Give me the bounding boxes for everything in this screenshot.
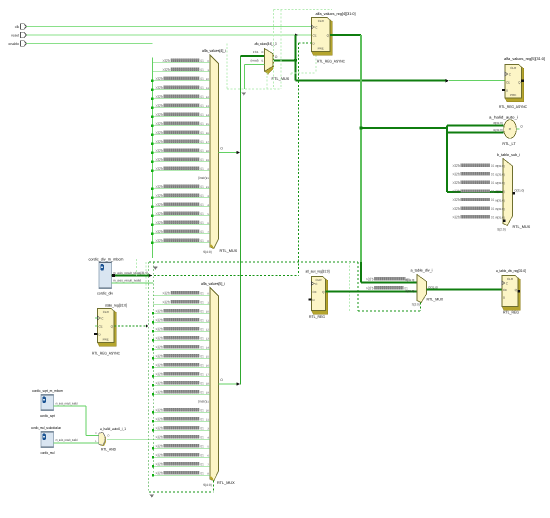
- svg-text:01: 01: [200, 373, 203, 377]
- svg-text:cordic_sqrt: cordic_sqrt: [40, 414, 56, 418]
- svg-text:>32'b: >32'b: [156, 112, 164, 117]
- svg-text:01: 01: [200, 230, 203, 234]
- net connector arrow top: [153, 267, 158, 270]
- svg-text:>32'b: >32'b: [156, 363, 164, 368]
- wire thin continuation to right register: [449, 80, 505, 82]
- svg-text:m_axis_result_tvalid: m_axis_result_tvalid: [56, 401, 78, 405]
- svg-text:m_axis_result_tvalid: m_axis_result_tvalid: [113, 279, 141, 283]
- boundary dashed dark vertical x149: [148, 262, 150, 492]
- svg-text:>32'b: >32'b: [453, 197, 461, 202]
- constant 32-bit input row 5 of upper mux: [152, 107, 210, 109]
- svg-text:CE: CE: [99, 324, 103, 328]
- svg-text:>32'b: >32'b: [163, 300, 171, 305]
- constant 32-bit input row 15 of upper mux: [152, 197, 210, 199]
- input port clk: [15, 24, 27, 29]
- wire enable net: [27, 43, 153, 45]
- svg-text:I1[31:0]: I1[31:0]: [493, 128, 503, 132]
- svg-text:>32'b: >32'b: [156, 444, 164, 449]
- svg-text:>32'b: >32'b: [156, 453, 164, 458]
- svg-text:>32'b: >32'b: [156, 139, 164, 144]
- svg-text:01: 01: [200, 292, 203, 296]
- svg-text:alfa_values_reg[5][31:0]: alfa_values_reg[5][31:0]: [504, 57, 545, 61]
- svg-text:cordic_mul: cordic_mul: [41, 451, 55, 455]
- constant 32-bit input row 19 of lower mux: [153, 465, 210, 467]
- constant 32-bit input row 20 of upper mux: [152, 242, 210, 244]
- svg-text:01: 01: [200, 203, 203, 207]
- svg-text:>32'b: >32'b: [156, 211, 164, 216]
- constant 32-bit input row 16 of lower mux: [107, 438, 210, 440]
- svg-text:CLR: CLR: [318, 19, 325, 23]
- constant 32-bit input row 6 of lower mux: [153, 348, 210, 350]
- comparator output O: [516, 128, 519, 130]
- stub D input black: [94, 333, 97, 335]
- boundary dashed dark vertical x153: [152, 262, 154, 473]
- constant 32-bit input row 11 of lower mux: [153, 393, 210, 395]
- svg-text:state_reg[31:0]: state_reg[31:0]: [105, 304, 127, 308]
- svg-text:CLR: CLR: [507, 277, 514, 281]
- svg-text:>32'b: >32'b: [453, 171, 461, 176]
- wire small mux I1 input: [245, 63, 265, 65]
- svg-text:>32'b: >32'b: [156, 318, 164, 323]
- svg-text:>32'b: >32'b: [156, 130, 164, 135]
- stub Q a_table_div_reg: [518, 290, 520, 292]
- svg-text:CLR: CLR: [103, 310, 110, 314]
- svg-text:1'b1: 1'b1: [253, 50, 259, 54]
- svg-text:>32'b: >32'b: [156, 462, 164, 467]
- dashed select rise to a_table mux S: [420, 303, 422, 312]
- dashed select vertical x358: [357, 262, 359, 311]
- svg-text:>32'b: >32'b: [156, 381, 164, 386]
- svg-text:CE: CE: [503, 288, 507, 292]
- svg-text:PRE: PRE: [103, 338, 109, 342]
- svg-text:01: 01: [200, 221, 203, 225]
- svg-text:01: 01: [200, 346, 203, 350]
- constant 32-bit input row 9 of lower mux: [153, 375, 210, 377]
- constant 32-bit input row 14 of upper mux: [152, 188, 210, 190]
- svg-text:I0[31:0]: I0[31:0]: [405, 278, 415, 282]
- svg-text:enable: enable: [8, 42, 19, 46]
- svg-text:RTL_MUX: RTL_MUX: [427, 297, 444, 301]
- svg-text:S[4:0]: S[4:0]: [203, 483, 211, 487]
- wire comparator I1: [447, 132, 504, 134]
- register alfa_values_reg[5][31:0] body RTL_REG_ASYNC: [505, 65, 524, 102]
- svg-text:RTL_REG_ASYNC: RTL_REG_ASYNC: [317, 60, 345, 64]
- svg-text:01: 01: [491, 198, 494, 202]
- svg-text:>32'b: >32'b: [156, 103, 164, 108]
- net connector arrow near feedback bus: [242, 92, 247, 95]
- svg-text:01: 01: [200, 194, 203, 198]
- svg-text:01: 01: [200, 122, 203, 126]
- svg-text:PRE: PRE: [510, 93, 516, 97]
- stub a0aux D input black: [309, 299, 312, 301]
- dashed light at a_table boundary: [349, 262, 351, 311]
- svg-text:b_table_sub_i: b_table_sub_i: [497, 153, 520, 157]
- constant 32-bit input row 4 of lower mux: [153, 330, 210, 332]
- svg-text:>32'b: >32'b: [156, 85, 164, 90]
- svg-text:S[4:0]: S[4:0]: [203, 250, 211, 254]
- register alfa_values_reg[4][31:0] body RTL_REG_ASYNC: [312, 18, 333, 56]
- svg-text:cordic_div: cordic_div: [97, 292, 113, 296]
- svg-text:>32'b: >32'b: [156, 229, 164, 234]
- gate RTL_AND body: [100, 433, 107, 446]
- svg-text:reset: reset: [11, 33, 19, 37]
- svg-text:>32'b: >32'b: [156, 426, 164, 431]
- constant 32-bit input row 16 of upper mux: [152, 206, 210, 208]
- input port enable: [8, 41, 26, 46]
- boundary dashed light vertical x146: [145, 262, 147, 290]
- junction on vertical bus: [360, 127, 363, 130]
- svg-text:01: 01: [491, 207, 494, 211]
- svg-text:RTL_REG_ASYNC: RTL_REG_ASYNC: [499, 105, 527, 109]
- constant 32-bit input row 20 of lower mux: [153, 474, 210, 476]
- module cordic_div body: [99, 262, 112, 289]
- svg-text:m_axis_result_tdata[31:0]: m_axis_result_tdata[31:0]: [113, 271, 148, 275]
- svg-text:alfa_values[5]_i: alfa_values[5]_i: [201, 281, 225, 286]
- svg-text:cordic_sqrt_m_mbcm: cordic_sqrt_m_mbcm: [32, 389, 63, 393]
- wire vertical bus from Q: [360, 35, 362, 262]
- constant 32-bit input row 17 of lower mux: [153, 447, 210, 449]
- svg-text:01: 01: [200, 59, 203, 63]
- svg-text:01: 01: [200, 77, 203, 81]
- constant 32-bit input row 13 of lower mux: [153, 411, 210, 413]
- boundary dashed light near PRE horizontal: [291, 72, 316, 74]
- junction dot small mux output: [294, 59, 297, 62]
- svg-text:01: 01: [491, 164, 494, 168]
- svg-text:>32'b: >32'b: [156, 354, 164, 359]
- svg-text:01: 01: [200, 140, 203, 144]
- wire feedback bus to small mux I0: [241, 55, 265, 57]
- mux alfa_values[4]_i RTL_MUX body: [210, 55, 219, 249]
- constant 32-bit input row 10 of upper mux: [152, 152, 210, 154]
- svg-text:>32'b: >32'b: [156, 417, 164, 422]
- svg-text:>32'b: >32'b: [156, 336, 164, 341]
- wire vertical at 447: [446, 126, 448, 193]
- svg-text:01: 01: [200, 472, 203, 476]
- svg-text:01: 01: [200, 463, 203, 467]
- svg-text:01: 01: [200, 328, 203, 332]
- svg-text:a_table_div_i: a_table_div_i: [411, 269, 433, 273]
- svg-text:>32'b: >32'b: [156, 309, 164, 314]
- wire dashed tdata to D of alfa_values_reg[4]: [299, 42, 312, 44]
- svg-text:01: 01: [200, 239, 203, 243]
- svg-text:PRE: PRE: [318, 47, 324, 51]
- boundary dashed light near PRE vertical: [315, 55, 317, 73]
- stub CE input: [95, 325, 98, 327]
- svg-text:01: 01: [200, 409, 203, 413]
- svg-text:>32'b: >32'b: [156, 166, 164, 171]
- constant 32-bit input row 18 of upper mux: [152, 224, 210, 226]
- dashed select bottom y492: [149, 491, 214, 493]
- wire a0_aux Q to a_table mux I1: [326, 291, 418, 293]
- svg-text:I1[31:0]: I1[31:0]: [405, 289, 415, 293]
- svg-text:RTL_MUX: RTL_MUX: [217, 481, 235, 485]
- svg-text:<: <: [509, 127, 512, 132]
- svg-text:01: 01: [491, 172, 494, 176]
- svg-text:>32'b: >32'b: [156, 148, 164, 153]
- svg-text:01: 01: [200, 113, 203, 117]
- wire a_table mux output: [427, 289, 503, 291]
- constant 32-bit input row 2 of upper mux: [152, 80, 210, 82]
- mux alfa_values[5]_i RTL_MUX body: [210, 288, 219, 481]
- svg-text:>32'b: >32'b: [156, 390, 164, 395]
- svg-text:01: 01: [200, 95, 203, 99]
- svg-text:01: 01: [200, 149, 203, 153]
- svg-text:RTL_AND: RTL_AND: [101, 447, 116, 451]
- svg-text:>32'b: >32'b: [156, 121, 164, 126]
- svg-text:cordic_mul_scaledvalue: cordic_mul_scaledvalue: [31, 426, 61, 430]
- wire b_table_sub I3 input: [447, 191, 503, 193]
- svg-text:alfa_values_reg[4][31:0]: alfa_values_reg[4][31:0]: [316, 12, 356, 16]
- svg-text:>32'b: >32'b: [453, 163, 461, 168]
- svg-text:I5[31:0]: I5[31:0]: [495, 207, 505, 211]
- svg-text:01: 01: [200, 418, 203, 422]
- constant 32-bit input row 11 of upper mux: [152, 161, 210, 163]
- svg-text:>32'b: >32'b: [156, 327, 164, 332]
- constant 32-bit input row 2 of lower mux: [153, 312, 210, 314]
- module cordic_sqrt body: [41, 395, 54, 411]
- register state_reg[31:0] body RTL_REG_ASYNC: [98, 309, 117, 347]
- svg-text:>32'b: >32'b: [156, 220, 164, 225]
- dashed select horizontal y262: [149, 261, 358, 263]
- svg-text:I1[31:0]: I1[31:0]: [495, 173, 505, 177]
- svg-text:a0_aux_reg[31:0]: a0_aux_reg[31:0]: [306, 269, 330, 273]
- svg-text:>32'b: >32'b: [156, 184, 164, 189]
- wire enable vertical distribution: [151, 58, 153, 259]
- arrow on reset net at boundary: [295, 33, 298, 36]
- constant 32-bit input row 1 of upper mux: [152, 71, 210, 73]
- svg-text:alfa_values[4]_i: alfa_values[4]_i: [202, 48, 226, 53]
- svg-text:>32'b: >32'b: [366, 276, 374, 281]
- svg-text:01: 01: [200, 68, 203, 72]
- svg-text:01: 01: [200, 364, 203, 368]
- register a0_aux_reg[31:0] body RTL_REG: [312, 277, 328, 315]
- constant 32-bit input row 7 of lower mux: [153, 357, 210, 359]
- constant 32-bit input row 12 of upper mux: [152, 170, 210, 172]
- svg-text:m_axis_result_tvalid: m_axis_result_tvalid: [56, 438, 78, 442]
- constant 32-bit input row 6 of upper mux: [152, 116, 210, 118]
- constant 32-bit input row 17 of upper mux: [152, 215, 210, 217]
- svg-text:>32'b: >32'b: [156, 76, 164, 81]
- svg-text:>32'b: >32'b: [156, 408, 164, 413]
- boundary dashed light left: [226, 44, 228, 89]
- mux b_table_sub_i body RTL_MUX: [503, 159, 513, 226]
- svg-text:01: 01: [200, 185, 203, 189]
- svg-text:>32'b: >32'b: [163, 291, 171, 296]
- svg-text:01: 01: [491, 215, 494, 219]
- dashed select vertical to lower mux S: [213, 481, 215, 493]
- wire clk net: [27, 26, 312, 28]
- svg-text:>32'b: >32'b: [366, 285, 374, 290]
- wire bus to right register CE: [296, 80, 447, 82]
- constant 32-bit input row 3 of upper mux: [152, 89, 210, 91]
- module cordic_mul body: [41, 432, 54, 448]
- constant 32-bit input row 10 of lower mux: [153, 384, 210, 386]
- svg-text:>32'b: >32'b: [453, 180, 461, 185]
- svg-text:CE: CE: [313, 290, 317, 294]
- comparator RTL_LT body: [504, 120, 517, 139]
- wire small mux select dashed: [266, 73, 268, 89]
- svg-text:a_halid_auto_i: a_halid_auto_i: [489, 116, 518, 120]
- svg-text:>32'b: >32'b: [156, 471, 164, 476]
- svg-text:I4[31:0]: I4[31:0]: [495, 198, 505, 202]
- svg-text:I0[31:0]: I0[31:0]: [493, 121, 503, 125]
- svg-text:01: 01: [200, 427, 203, 431]
- constant 32-bit input row 9 of upper mux: [152, 143, 210, 145]
- svg-text:O: O: [220, 378, 223, 382]
- svg-text:01: 01: [200, 86, 203, 90]
- svg-text:01: 01: [200, 445, 203, 449]
- svg-text:CLR: CLR: [510, 66, 517, 70]
- svg-text:a_halid_auto0_i_1: a_halid_auto0_i_1: [100, 427, 126, 431]
- svg-text:I2[31:0]: I2[31:0]: [495, 181, 505, 185]
- svg-text:01: 01: [200, 158, 203, 162]
- svg-text:>32'b: >32'b: [156, 202, 164, 207]
- boundary dashed light vertical A: [273, 10, 275, 89]
- constant 32-bit input row 3 of lower mux: [153, 321, 210, 323]
- svg-text:01: 01: [200, 382, 203, 386]
- svg-text:I0[31:0]: I0[31:0]: [495, 164, 505, 168]
- boundary dashed light vertical B: [280, 10, 282, 89]
- svg-text:CE: CE: [506, 80, 510, 84]
- svg-text:cordic_div_m_mbcm: cordic_div_m_mbcm: [89, 257, 124, 261]
- svg-text:I3[31:0]: I3[31:0]: [495, 190, 505, 194]
- svg-text:>32'b: >32'b: [156, 345, 164, 350]
- svg-text:01: 01: [200, 212, 203, 216]
- svg-text:O[31:0]: O[31:0]: [514, 188, 524, 192]
- svg-text:>32'b: >32'b: [156, 94, 164, 99]
- svg-text:>32'b: >32'b: [156, 193, 164, 198]
- svg-text:>32'b: >32'b: [453, 214, 461, 219]
- svg-text:>32'b: >32'b: [156, 238, 164, 243]
- register a_table_div_reg[31:0] body RTL_REG: [502, 276, 520, 311]
- svg-text:O: O: [275, 55, 278, 59]
- dashed select horizontal y311: [358, 310, 421, 312]
- svg-text:01: 01: [200, 454, 203, 458]
- svg-text:RTL_LT: RTL_LT: [502, 142, 516, 146]
- constant 32-bit input row 19 of upper mux: [152, 233, 210, 235]
- constant 32-bit input row 4 of upper mux: [152, 98, 210, 100]
- wire bus down from reset/mux-out junction: [295, 35, 297, 81]
- stub C input: [95, 317, 98, 319]
- boundary dashed light vertical x136: [136, 259, 138, 276]
- svg-text:I6[31:0]: I6[31:0]: [495, 216, 505, 220]
- constant 32-bit input row 8 of lower mux: [153, 366, 210, 368]
- constant 32-bit input row 18 of lower mux: [153, 456, 210, 458]
- svg-text:>32'b: >32'b: [156, 435, 164, 440]
- svg-text:01: 01: [200, 355, 203, 359]
- svg-text:RTL_REG: RTL_REG: [503, 310, 519, 314]
- svg-text:clk: clk: [15, 25, 20, 29]
- boundary dashed light top: [274, 9, 333, 11]
- wire Q output of alfa_values_reg[4]: [330, 34, 361, 36]
- svg-text:>32'b: >32'b: [163, 58, 171, 63]
- svg-text:01: 01: [491, 190, 494, 194]
- wire state_reg Q dashed bus: [115, 325, 147, 327]
- svg-text:01: 01: [491, 181, 494, 185]
- constant 32-bit input row 14 of lower mux: [153, 420, 210, 422]
- input port reset: [11, 32, 26, 37]
- svg-text:01: 01: [200, 319, 203, 323]
- svg-text:O: O: [220, 147, 223, 151]
- constant 32-bit input row 1 of lower mux: [153, 303, 210, 305]
- svg-text:>32'b: >32'b: [163, 67, 171, 72]
- wire a_table mux I0 from vertical bus: [361, 282, 417, 284]
- wire Q stub right register: [521, 80, 524, 82]
- svg-text:01: 01: [200, 131, 203, 135]
- svg-text:01: 01: [200, 337, 203, 341]
- svg-text:>32'b: >32'b: [453, 189, 461, 194]
- wire reset net: [27, 34, 312, 36]
- svg-text:RTL_MUX: RTL_MUX: [220, 249, 238, 253]
- svg-text:RTL_REG: RTL_REG: [309, 315, 325, 319]
- constant 32-bit input row 5 of lower mux: [153, 339, 210, 341]
- svg-text:01: 01: [200, 167, 203, 171]
- constant 32-bit input row 15 of lower mux: [153, 429, 210, 431]
- svg-text:>32'b: >32'b: [156, 372, 164, 377]
- constant 32-bit input row 0 of lower mux: [153, 294, 210, 296]
- svg-text:(read): (read): [250, 59, 258, 63]
- constant 32-bit input row 7 of upper mux: [152, 125, 210, 127]
- boundary dashed light bottom: [227, 88, 281, 90]
- svg-text:CE: CE: [313, 33, 317, 37]
- svg-text:>32'b: >32'b: [156, 157, 164, 162]
- constant 32-bit input row 8 of upper mux: [152, 134, 210, 136]
- svg-text:01: 01: [200, 391, 203, 395]
- mux alfa_values[8:4]_i_3 body: [266, 50, 275, 74]
- wire comparator feed horizontal: [361, 127, 447, 129]
- svg-text:S[2:0]: S[2:0]: [412, 302, 420, 306]
- net connector arrow bottom: [150, 495, 155, 498]
- svg-text:01: 01: [200, 310, 203, 314]
- wire comparator I0: [447, 125, 504, 127]
- svg-text:a_table_div_reg[31:0]: a_table_div_reg[31:0]: [496, 269, 526, 273]
- mux a_table_div_i body RTL_MUX: [417, 275, 427, 303]
- svg-text:01: 01: [200, 436, 203, 440]
- svg-text:S[2:0]: S[2:0]: [497, 228, 505, 232]
- svg-text:RTL_MUX: RTL_MUX: [513, 225, 531, 229]
- stub D input right register: [502, 89, 505, 91]
- svg-text:RTL_REG_ASYNC: RTL_REG_ASYNC: [92, 351, 120, 355]
- svg-text:>32'b: >32'b: [453, 206, 461, 211]
- wire feedback bus vertical: [240, 56, 242, 385]
- wire small mux output bus: [273, 59, 296, 61]
- svg-text:01: 01: [200, 104, 203, 108]
- constant 32-bit input row 0 of upper mux: [152, 62, 210, 64]
- svg-text:01: 01: [200, 301, 203, 305]
- pin mark I6 b_table: [503, 220, 505, 222]
